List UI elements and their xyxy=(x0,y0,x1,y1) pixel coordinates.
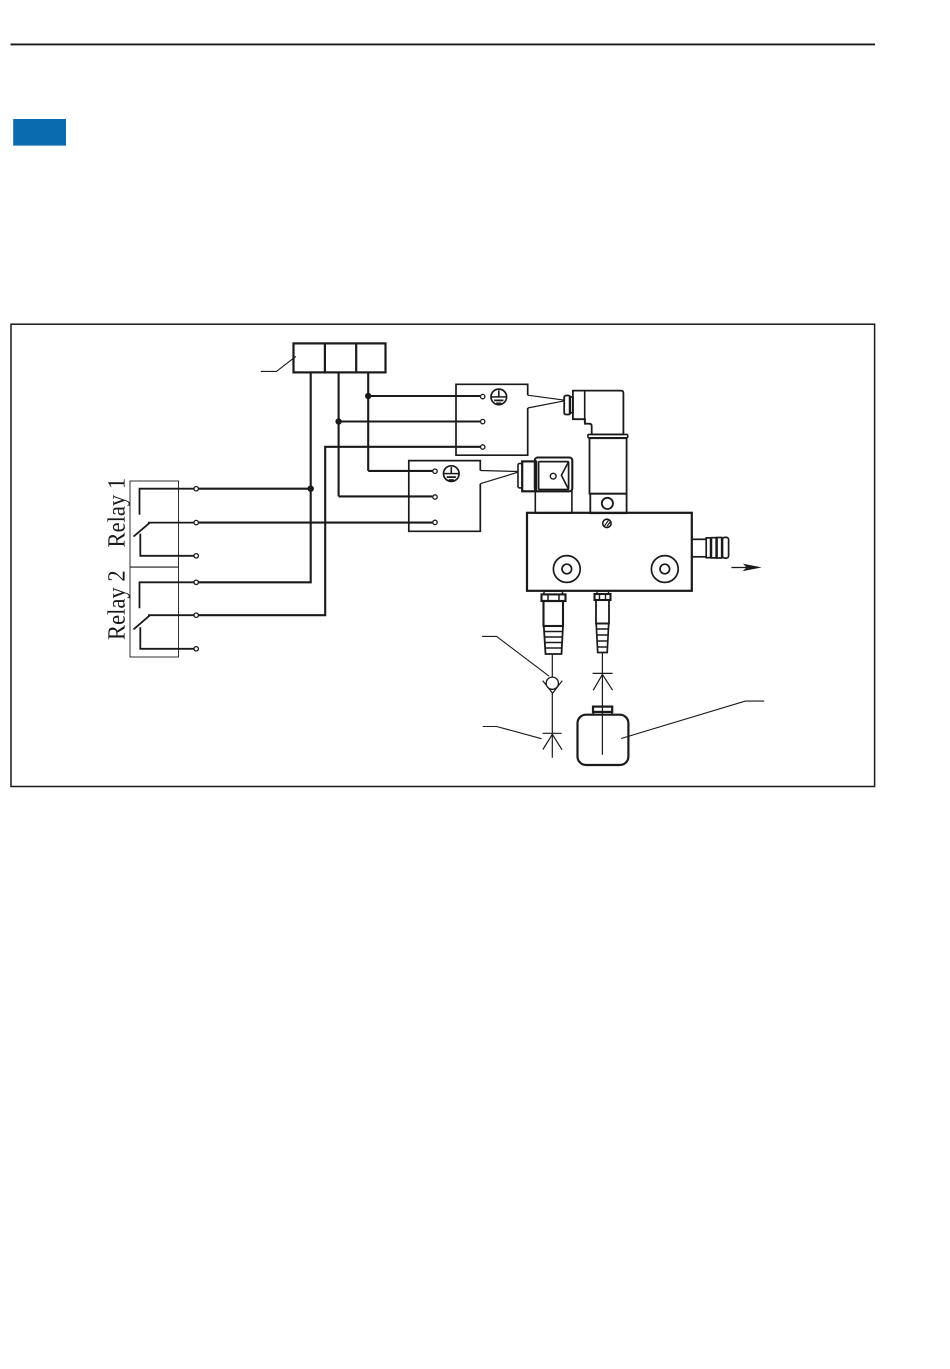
junction dot C xyxy=(308,486,314,492)
header rule xyxy=(11,43,876,45)
leader to check valve xyxy=(482,636,549,676)
leader to container xyxy=(621,701,764,738)
hose line left xyxy=(551,654,553,758)
leader to terminal block xyxy=(261,356,296,371)
blue section marker xyxy=(13,119,66,146)
atmosphere symbol left xyxy=(543,733,562,750)
relay 1 contact xyxy=(134,489,197,556)
left port xyxy=(553,556,580,583)
junction dot A xyxy=(365,393,371,399)
upper connector detail box xyxy=(456,384,528,455)
wire: block pin3 to upper pin1 and lower pin1 xyxy=(368,373,480,471)
junction dot B xyxy=(335,418,341,424)
right fitting xyxy=(595,591,611,652)
terminal block xyxy=(294,343,386,372)
wire: relay2 common to upper connector pin3 xyxy=(196,447,480,615)
wire: block pin1 / relay1 NO to relay2 NO xyxy=(196,373,311,582)
hose barb outlet xyxy=(692,537,729,558)
atmosphere symbol right xyxy=(593,673,613,690)
manifold screw xyxy=(603,519,611,527)
label Relay 1 xyxy=(107,479,130,547)
container bottle xyxy=(578,707,629,765)
leader to left atmosphere xyxy=(483,727,542,739)
label Relay 2 xyxy=(107,572,130,640)
upper PE ground symbol xyxy=(491,389,507,405)
relay terminals xyxy=(194,487,198,652)
solenoid coil xyxy=(588,434,628,513)
right port xyxy=(651,556,678,583)
hose line right xyxy=(601,653,603,755)
figure frame xyxy=(11,324,875,786)
upper callout lines xyxy=(528,395,565,408)
lower PE ground symbol xyxy=(444,466,460,482)
lower DIN plug (face view) xyxy=(518,458,572,514)
wire: block pin2 to upper pin2 and lower pin2 xyxy=(339,373,481,496)
left fitting xyxy=(542,591,566,654)
flow arrow xyxy=(731,567,747,569)
upper connector terminals xyxy=(481,394,485,449)
lower connector terminals xyxy=(433,469,437,525)
wire: relay1 common to lower connector pin3 xyxy=(196,522,432,524)
valve manifold block xyxy=(527,513,692,591)
upper DIN plug (right angle) xyxy=(564,391,623,435)
lower callout lines xyxy=(480,471,518,484)
relay 2 contact xyxy=(134,582,197,649)
relay box xyxy=(130,481,179,657)
check valve xyxy=(543,681,563,694)
lower connector detail box xyxy=(409,461,481,532)
